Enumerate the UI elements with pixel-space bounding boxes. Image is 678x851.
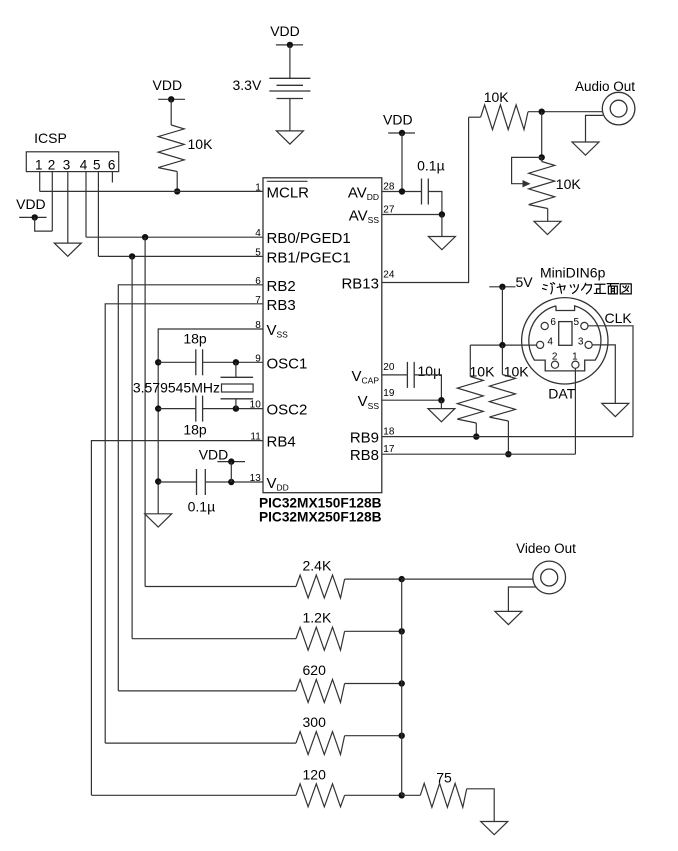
wire <box>170 99 172 125</box>
svg-text:4: 4 <box>255 228 261 239</box>
wire <box>176 172 178 192</box>
svg-text:6: 6 <box>550 317 556 328</box>
svg-text:6: 6 <box>108 158 116 173</box>
wire pin3 to gnd <box>592 345 615 404</box>
svg-text:0.1µ: 0.1µ <box>417 158 445 174</box>
wire video out <box>402 578 533 580</box>
junction RB0-ladder <box>142 234 148 240</box>
resistor R9 120 <box>296 784 345 807</box>
wire <box>289 45 291 78</box>
svg-text:18: 18 <box>383 427 395 438</box>
ground (AVSS) <box>428 237 455 250</box>
junction <box>155 405 161 411</box>
capacitor C4 0.1u <box>421 179 423 205</box>
svg-text:1: 1 <box>255 182 261 193</box>
MiniDIN pin 2 <box>551 361 558 368</box>
pin 2 wire (ICSP VDD) <box>51 172 53 232</box>
wire <box>441 215 443 237</box>
resistor R8 300 <box>296 732 345 755</box>
IC U1 PIC32MX150F128B/250F128B body <box>263 178 382 493</box>
junction <box>155 478 161 484</box>
wire <box>401 133 403 192</box>
svg-text:10K: 10K <box>484 89 510 105</box>
wire RB1 vertical <box>131 256 133 638</box>
svg-text:3: 3 <box>578 337 584 348</box>
svg-text:MCLR: MCLR <box>267 184 310 201</box>
potentiometer VR1 10K <box>541 157 543 161</box>
resistor R2 10K (audio) <box>469 116 481 118</box>
wire <box>289 99 291 131</box>
wire OSC2 row <box>158 408 196 410</box>
ground <box>276 131 303 144</box>
wire RB0 vertical <box>144 237 146 586</box>
capacitor C3 0.1u <box>196 469 198 495</box>
junction <box>439 211 445 217</box>
junction <box>438 397 444 403</box>
wire ladder row 300 <box>105 742 296 744</box>
svg-text:VDD: VDD <box>153 77 183 93</box>
svg-text:10K: 10K <box>188 136 214 152</box>
ground (video jack) <box>495 611 522 624</box>
wire VSS rail <box>158 329 263 514</box>
junction bus <box>399 576 405 582</box>
pin 6 stub (NC) <box>111 172 113 183</box>
svg-text:6: 6 <box>255 276 261 287</box>
connector J4 Video Out <box>533 561 566 594</box>
ground (75 ohm) <box>481 822 508 835</box>
svg-text:11: 11 <box>250 432 261 443</box>
MiniDIN pin 3 <box>585 341 592 348</box>
wire RB1/PGEC1 net <box>98 255 263 257</box>
wire RB8 net <box>382 453 576 455</box>
svg-text:5: 5 <box>255 247 261 258</box>
svg-text:5V: 5V <box>516 274 534 290</box>
svg-text:27: 27 <box>383 205 395 216</box>
svg-text:300: 300 <box>303 714 327 730</box>
svg-text:4: 4 <box>80 158 88 173</box>
svg-text:2.4K: 2.4K <box>303 558 332 574</box>
MiniDIN pin 5 <box>581 322 588 329</box>
svg-text:4: 4 <box>547 337 553 348</box>
svg-text:RB9: RB9 <box>350 430 379 447</box>
wire VSS pin19 net <box>382 399 442 401</box>
junction OSC2-crystal <box>233 405 239 411</box>
wire RB13 net <box>382 117 469 282</box>
resistor R1 10K (MCLR pullup) <box>158 125 184 172</box>
wire OSC1 row <box>158 361 196 363</box>
svg-text:18p: 18p <box>183 331 207 347</box>
capacitor C5 10u <box>406 362 408 388</box>
junction on MCLR net <box>174 188 180 194</box>
svg-text:Audio Out: Audio Out <box>575 79 635 94</box>
wire RB2 net <box>118 285 263 691</box>
wire VCAP net <box>382 374 408 376</box>
junction bus <box>399 792 405 798</box>
svg-text:0.1µ: 0.1µ <box>188 499 216 515</box>
svg-text:OSC1: OSC1 <box>267 355 308 372</box>
svg-text:VDD: VDD <box>383 112 413 128</box>
wire audio sleeve <box>586 115 604 142</box>
MiniDIN pin 4 <box>537 341 544 348</box>
wire 5V vertical <box>501 287 503 345</box>
svg-text:1: 1 <box>572 351 578 362</box>
wire <box>345 794 402 796</box>
svg-text:3.3V: 3.3V <box>232 77 261 93</box>
svg-text:10K: 10K <box>470 363 496 379</box>
svg-text:Video Out: Video Out <box>516 541 576 556</box>
svg-text:PIC32MX150F128B: PIC32MX150F128B <box>259 496 382 511</box>
junction bus <box>399 733 405 739</box>
resistor R4 10K (DAT pullup) <box>501 345 503 374</box>
resistor R10 75 <box>402 794 421 796</box>
ground (VSS rail) <box>145 514 172 527</box>
resistor R3 10K (CLK pullup) <box>469 345 471 376</box>
junction RB1-ladder <box>129 253 135 259</box>
svg-text:RB13: RB13 <box>341 276 379 293</box>
svg-text:10µ: 10µ <box>418 363 442 379</box>
ground (ICSP pin3) <box>54 243 81 256</box>
ground (pin19) <box>428 409 455 422</box>
svg-text:3.579545MHz: 3.579545MHz <box>133 380 220 396</box>
svg-text:1: 1 <box>35 158 43 173</box>
svg-text:120: 120 <box>303 766 327 782</box>
wire 5V rail <box>470 344 536 346</box>
svg-text:620: 620 <box>303 662 327 678</box>
junction audio node <box>539 109 545 115</box>
svg-text:19: 19 <box>383 388 395 399</box>
svg-text:RB2: RB2 <box>267 278 296 295</box>
ground (MiniDIN pin3) <box>602 403 629 416</box>
svg-text:DAT: DAT <box>548 385 575 401</box>
svg-text:1.2K: 1.2K <box>303 610 332 626</box>
wire <box>541 112 543 158</box>
wire <box>345 630 402 632</box>
wire RB4 net <box>91 441 263 796</box>
junction RB9/CLK <box>473 433 479 439</box>
svg-text:10K: 10K <box>556 176 582 192</box>
wire <box>35 217 53 231</box>
wire RB3 net <box>105 304 263 743</box>
wire <box>547 209 549 222</box>
svg-text:OSC2: OSC2 <box>267 402 308 419</box>
svg-text:RB3: RB3 <box>267 297 296 314</box>
MiniDIN pin 1 <box>572 361 579 368</box>
battery BT1 3.3V <box>269 77 310 79</box>
wire ladder row 1.2K <box>132 638 296 640</box>
pin 5 wire (ICSP PGEC) <box>97 172 99 257</box>
capacitor C1 18p <box>195 349 197 375</box>
resistor R6 1.2K <box>296 627 345 650</box>
wire <box>507 421 509 454</box>
wire MCLR net <box>40 190 263 192</box>
pin 3 wire (ICSP GND) <box>67 172 69 244</box>
junction RB8/DAT <box>505 451 511 457</box>
wire AVDD net <box>382 191 422 193</box>
pin 4 wire (ICSP PGED) <box>85 172 87 238</box>
svg-text:RB4: RB4 <box>267 434 296 451</box>
junction 5V <box>499 342 505 348</box>
pin label MCLR (overline) <box>267 180 308 182</box>
ground (audio jack) <box>572 142 599 155</box>
svg-text:VDD: VDD <box>16 196 46 212</box>
connector J1 ICSP <box>26 152 118 172</box>
resistor R7 620 <box>296 679 345 702</box>
wire AVSS net <box>382 214 442 216</box>
svg-text:RB8: RB8 <box>350 447 379 464</box>
svg-text:VDD: VDD <box>199 447 229 463</box>
wire <box>414 375 441 400</box>
svg-text:RB1/PGEC1: RB1/PGEC1 <box>267 249 351 266</box>
svg-text:5: 5 <box>93 158 101 173</box>
wire <box>528 111 603 113</box>
svg-text:CLK: CLK <box>605 310 633 326</box>
svg-text:PIC32MX250F128B: PIC32MX250F128B <box>259 510 382 525</box>
wire <box>440 400 442 408</box>
wire <box>475 423 477 437</box>
connector J3 MiniDIN6p shell <box>522 298 608 384</box>
junction bus <box>399 628 405 634</box>
svg-text:MiniDIN6p: MiniDIN6p <box>540 265 606 281</box>
MiniDIN pin 6 <box>541 322 548 329</box>
pin 1 wire (ICSP MCLR) <box>39 172 41 192</box>
junction <box>155 359 161 365</box>
junction <box>228 479 234 485</box>
junction pot top <box>539 154 545 160</box>
junction OSC1-crystal <box>233 359 239 365</box>
svg-text:RB0/PGED1: RB0/PGED1 <box>267 230 351 247</box>
wire ladder row 2.4K <box>145 586 296 588</box>
junction bus <box>399 680 405 686</box>
label jack front view (Japanese) <box>543 283 555 294</box>
svg-text:18p: 18p <box>183 422 207 438</box>
wire <box>345 735 402 737</box>
svg-text:75: 75 <box>436 770 452 786</box>
wire RB0/PGED1 net <box>86 236 263 238</box>
wire ladder row 620 <box>118 690 296 692</box>
wire <box>345 578 402 580</box>
svg-text:24: 24 <box>383 270 395 281</box>
wire DAT vertical <box>574 368 576 454</box>
capacitor C2 18p <box>195 396 197 422</box>
svg-text:20: 20 <box>383 362 395 373</box>
wire <box>230 462 232 482</box>
wire CLK <box>588 326 633 437</box>
wire <box>467 789 495 822</box>
svg-text:2: 2 <box>48 158 56 173</box>
ground (pot) <box>534 221 561 234</box>
svg-text:7: 7 <box>255 295 261 306</box>
svg-text:2: 2 <box>552 351 558 362</box>
connector J2 Audio Out <box>602 92 635 125</box>
wire <box>428 192 442 215</box>
resistor R5 2.4K <box>296 575 345 598</box>
svg-text:VDD: VDD <box>270 23 300 39</box>
svg-text:28: 28 <box>383 182 395 193</box>
svg-text:3: 3 <box>63 158 71 173</box>
wire ladder row 120 <box>91 794 296 796</box>
wire <box>345 683 402 685</box>
wire RB9 net <box>382 436 633 438</box>
crystal X1 3.579545MHz <box>235 362 237 377</box>
wire video sleeve <box>508 587 536 611</box>
svg-text:17: 17 <box>383 444 395 455</box>
junction <box>399 188 405 194</box>
svg-text:ICSP: ICSP <box>34 130 67 146</box>
svg-text:5: 5 <box>574 317 580 328</box>
wire summing bus <box>401 579 403 795</box>
wire VDD pin13 net <box>206 481 263 483</box>
svg-text:10K: 10K <box>504 363 530 379</box>
